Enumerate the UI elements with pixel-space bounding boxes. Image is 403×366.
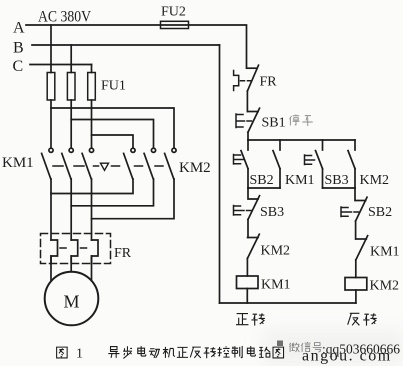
caption title text <box>108 346 283 358</box>
svg-text:1: 1 <box>76 347 83 362</box>
wire SB3NC to KM2NC <box>247 220 249 238</box>
svg-text:A: A <box>13 20 25 37</box>
svg-text:FR: FR <box>260 75 278 90</box>
svg-text:FR: FR <box>114 246 132 261</box>
svg-text:KM2: KM2 <box>179 160 211 176</box>
control top bus <box>248 139 355 141</box>
wire crossover B to KM2 pole2 <box>71 120 153 149</box>
svg-text:angou. com: angou. com <box>302 348 392 365</box>
svg-text:SB3: SB3 <box>260 205 284 220</box>
wire FR to motor right <box>91 256 93 281</box>
wire to coil KM1 <box>246 259 248 277</box>
SB3 NC actuator E <box>234 206 252 216</box>
linkage triangle <box>101 163 109 170</box>
label FR main <box>114 246 132 261</box>
wire phase A <box>26 25 247 68</box>
contactor KM1 main pole1 <box>42 148 54 179</box>
label phase C <box>13 58 24 75</box>
fuse FU2 <box>161 21 189 28</box>
wire crossunder KM2 pole3 <box>92 179 175 219</box>
label SB3 NC <box>260 205 284 220</box>
watermark wechat line <box>289 342 321 352</box>
wire KM1 pole1 down <box>50 179 52 240</box>
svg-text:FU2: FU2 <box>161 5 186 20</box>
label KM1 main <box>2 155 34 171</box>
thermal overload FR heater2 <box>71 240 78 264</box>
merge bus right <box>323 187 356 189</box>
SB2 NC actuator E <box>341 207 359 217</box>
label coil KM1 <box>261 278 291 293</box>
wire crossover A to KM2 pole3 <box>51 108 174 148</box>
svg-text:KM1: KM1 <box>285 173 315 188</box>
label SB2 NC <box>368 205 392 220</box>
svg-text:C: C <box>13 58 24 75</box>
label phase A <box>13 20 25 37</box>
FR NC contact <box>247 65 259 91</box>
svg-text:KM2: KM2 <box>261 244 291 259</box>
svg-text:FU1: FU1 <box>101 79 126 94</box>
wire fuse2 down <box>70 100 72 148</box>
svg-text:B: B <box>13 40 24 57</box>
contactor KM2 main pole1 <box>124 148 135 179</box>
label phase B <box>13 40 24 57</box>
wire FR to motor mid <box>70 256 72 272</box>
label SB1 <box>262 116 286 131</box>
wire tap A <box>50 25 52 73</box>
start button SB3 NO <box>316 151 323 188</box>
SB1 actuator E <box>236 114 252 128</box>
svg-text:KM2: KM2 <box>360 173 390 188</box>
svg-text:KM2: KM2 <box>370 279 400 294</box>
watermark site <box>302 348 392 365</box>
interlock SB2 NC <box>356 197 368 221</box>
contactor KM2 main pole2 <box>144 148 155 179</box>
FR dashed box <box>41 234 111 264</box>
label SB1 tingche <box>290 115 313 127</box>
label SB3 top <box>325 173 349 188</box>
wire coil KM2 to bus <box>355 290 357 303</box>
label motor M <box>64 292 80 312</box>
svg-text:KM1: KM1 <box>261 278 291 293</box>
interlock SB3 NC <box>248 188 260 220</box>
label FR control <box>260 75 278 90</box>
caption figure label <box>57 347 68 358</box>
label KM1 NC <box>370 245 400 260</box>
wire crossover C to KM2 pole1 <box>92 135 134 148</box>
label FU2 <box>161 5 186 20</box>
watermark qq number <box>322 342 400 357</box>
interlock KM1 NC <box>356 236 368 260</box>
wire phase B <box>32 44 220 46</box>
FR link dashes <box>60 247 87 249</box>
linkage dashes KM2 <box>112 165 164 167</box>
label zhengzhuan forward <box>236 313 265 325</box>
coil KM1 <box>237 276 259 289</box>
wire to coil KM2 <box>355 260 357 278</box>
label KM2 aux <box>360 173 390 188</box>
wire fuse1 down <box>50 100 52 148</box>
wire coil KM1 to bus <box>246 289 248 304</box>
wire crossunder KM2 pole2 <box>71 179 153 206</box>
wire KM1 pole3 down <box>91 179 93 240</box>
wire drop KM2 aux <box>354 140 356 150</box>
holding contact KM1 NO <box>273 151 280 188</box>
contactor KM1 main pole3 <box>82 148 94 179</box>
fuse FU1 pole1 <box>47 73 55 101</box>
wire FR to motor left <box>50 256 52 281</box>
watermark wechat dot <box>277 341 283 347</box>
svg-text:SB1: SB1 <box>262 116 286 131</box>
control rail left (phase B) <box>219 45 221 303</box>
svg-text:M: M <box>64 292 80 312</box>
motor M circle <box>45 272 99 326</box>
wire drop SB2 <box>247 140 249 150</box>
wire tap C <box>91 65 93 73</box>
label coil KM2 <box>370 279 400 294</box>
thermal overload FR heater3 <box>92 240 99 264</box>
holding contact KM2 NO <box>348 151 355 188</box>
label KM1 aux <box>285 173 315 188</box>
thermal overload FR heater1 <box>51 240 58 264</box>
svg-text:AC 380V: AC 380V <box>38 9 91 26</box>
wire phase C <box>30 64 92 66</box>
caption figure number <box>76 347 83 362</box>
label KM2 main <box>179 160 211 176</box>
contactor KM2 main pole3 <box>165 148 176 179</box>
svg-text:SB2: SB2 <box>368 205 392 220</box>
control bottom bus <box>220 302 356 304</box>
start button SB2 NO <box>241 151 248 188</box>
wire drop SB3 <box>322 140 324 150</box>
wire fuse3 down <box>91 100 93 148</box>
stop button SB1 NC <box>248 108 260 132</box>
svg-text:SB2: SB2 <box>250 173 274 188</box>
label SB2 top <box>250 173 274 188</box>
wire tap B <box>70 45 72 73</box>
merge bus left <box>248 187 280 189</box>
linkage dashes KM1 <box>53 165 99 167</box>
interlock KM2 NC <box>247 234 259 258</box>
label AC380V <box>38 9 91 26</box>
svg-text:SB3: SB3 <box>325 173 349 188</box>
label FU1 <box>101 79 126 94</box>
svg-text:KM1: KM1 <box>370 245 400 260</box>
SB2 actuator E <box>234 155 244 165</box>
wire drop KM1 aux <box>279 140 281 150</box>
fuse FU1 pole3 <box>88 73 96 101</box>
label KM2 NC <box>261 244 291 259</box>
FR trip actuator <box>234 71 252 91</box>
svg-text:KM1: KM1 <box>2 155 34 171</box>
wire FR to SB1 <box>246 91 248 112</box>
contactor KM1 main pole2 <box>62 148 73 179</box>
wire SB2NC to KM1NC <box>355 221 357 239</box>
wire KM1 pole2 down <box>70 179 72 240</box>
SB3 actuator E <box>305 155 315 165</box>
label fanzhuan reverse <box>348 313 377 325</box>
coil KM2 <box>345 278 367 291</box>
wire SB1 to bus <box>247 132 249 140</box>
wire KM2aux down <box>354 188 356 201</box>
fuse FU1 pole2 <box>67 73 75 101</box>
wire crossunder KM2 pole1 <box>51 179 133 194</box>
